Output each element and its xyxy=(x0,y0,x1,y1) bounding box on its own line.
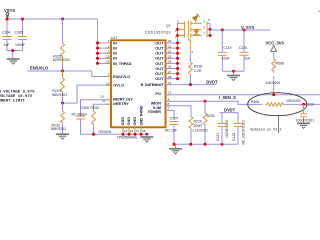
svg-text:10K/0201: 10K/0201 xyxy=(266,81,281,85)
svg-text:Updated on V2.1: Updated on V2.1 xyxy=(250,128,282,133)
svg-text:GND: GND xyxy=(126,117,131,126)
svg-text:10: 10 xyxy=(100,95,104,99)
resistor R233 xyxy=(90,106,111,134)
svg-text:TPS25940A0L: TPS25940A0L xyxy=(117,136,138,140)
IC left pin numbers xyxy=(100,39,110,103)
svg-text:C121: C121 xyxy=(216,133,220,141)
svg-text:18: 18 xyxy=(142,129,146,133)
node VSYS power label xyxy=(4,8,15,19)
resistor R231 1.1K/0201 xyxy=(192,101,215,144)
wire NRETRY pin 11 to R233 xyxy=(94,104,112,111)
svg-text:OUT: OUT xyxy=(155,76,164,81)
ground (analog) xyxy=(169,144,182,154)
ground (IC) xyxy=(140,134,153,142)
svg-text:EN/UVLO: EN/UVLO xyxy=(113,74,130,79)
capacitor C121 100nF/0201 xyxy=(216,113,229,145)
svg-text:IN_THPAD: IN_THPAD xyxy=(113,61,132,66)
svg-text:R230: R230 xyxy=(194,65,202,69)
ground (C119/C120) xyxy=(227,71,240,80)
svg-text:Q7: Q7 xyxy=(166,24,171,28)
svg-text:10K/0201: 10K/0201 xyxy=(286,99,301,103)
wire IC GND bottom rail xyxy=(81,133,147,135)
svg-text:56K/0201: 56K/0201 xyxy=(51,127,66,131)
svg-text:C306: C306 xyxy=(81,106,89,110)
junction dots analog rail xyxy=(173,143,224,146)
svg-text:2.2R: 2.2R xyxy=(194,69,202,73)
resistor R230 2.2R (gate) xyxy=(188,54,202,85)
IC left pin names xyxy=(113,40,133,106)
wire analog gnd rail xyxy=(174,143,238,145)
svg-text:100nF: 100nF xyxy=(15,43,25,47)
svg-text:300R: 300R xyxy=(194,124,203,128)
wire RETRY_DLY pin 10 to C306 xyxy=(81,100,112,116)
junction dot dVdT/R230 xyxy=(189,83,192,86)
junction dots V_SYS rail xyxy=(221,29,224,32)
svg-text:NC 100nF/0201: NC 100nF/0201 xyxy=(242,120,246,145)
svg-text:VOLTAGE 19.97V: VOLTAGE 19.97V xyxy=(0,95,33,99)
resistor R222 620R/0201 xyxy=(53,19,70,71)
comment text left margin xyxy=(0,90,35,103)
annotation leader line xyxy=(278,116,280,133)
svg-text:EN/UVLO: EN/UVLO xyxy=(30,66,49,71)
resistor R229 300R xyxy=(189,117,202,145)
svg-text:1.1K/0201: 1.1K/0201 xyxy=(192,128,208,132)
capacitor C306 NC 680pF xyxy=(72,106,90,134)
svg-text:ITIMER: ITIMER xyxy=(148,109,161,114)
annotation ellipse R400 xyxy=(248,93,307,116)
svg-text:R233: R233 xyxy=(90,106,98,110)
junction dots IN bus xyxy=(96,42,99,65)
wire stub to ground xyxy=(12,51,14,55)
svg-text:NC 680pF: NC 680pF xyxy=(72,112,88,116)
capacitor C119 10uF xyxy=(218,30,232,71)
svg-text:10uF: 10uF xyxy=(222,57,230,61)
wire IC GND pin stubs xyxy=(123,127,141,134)
wire top-left VSYS rail xyxy=(7,18,98,20)
svg-text:C305: C305 xyxy=(15,30,23,34)
junction dot EN/UVLO xyxy=(61,70,64,73)
power VCC_3V3 xyxy=(266,41,285,59)
svg-text:16: 16 xyxy=(130,129,134,133)
svg-text:0R/0201: 0R/0201 xyxy=(99,130,112,134)
svg-text:56K/0201: 56K/0201 xyxy=(52,93,67,97)
junction dot node B xyxy=(61,102,64,105)
svg-text:IN: IN xyxy=(113,56,117,61)
junction dots GND rail xyxy=(92,133,148,136)
wire right edge stub xyxy=(318,10,320,12)
svg-text:R231: R231 xyxy=(207,114,215,118)
svg-text:DVDT: DVDT xyxy=(224,108,236,113)
wire ITIMER xyxy=(166,110,175,118)
svg-text:C304: C304 xyxy=(2,30,10,34)
wire IMON / I_SEN_S xyxy=(166,101,263,104)
pin stubs orange left side xyxy=(106,43,112,104)
svg-text:15: 15 xyxy=(124,129,128,133)
capacitor C120 1uF xyxy=(239,30,251,71)
svg-text:GND: GND xyxy=(120,117,125,126)
svg-text:17: 17 xyxy=(136,129,140,133)
wire EN/UVLO to pin 6 xyxy=(28,71,112,77)
svg-text:NRETRY: NRETRY xyxy=(113,101,129,106)
wire OUT pin stubs xyxy=(166,43,178,79)
capacitor C304 xyxy=(2,19,12,51)
resistor R223 56K/0201 xyxy=(52,71,67,103)
svg-text:R508: R508 xyxy=(276,61,284,65)
capacitor C305 xyxy=(15,19,28,51)
wire node B to OVLO pin xyxy=(63,85,112,103)
junction dot PG/R508 xyxy=(272,93,275,96)
capacitor C223 100nF/0201 xyxy=(296,102,315,122)
junction dots Q7 drain xyxy=(209,28,212,31)
svg-text:B_GATE/dVdT: B_GATE/dVdT xyxy=(141,82,165,87)
svg-text:VCC_3V3: VCC_3V3 xyxy=(266,41,285,46)
IC bottom pin names (rotated) xyxy=(120,105,143,125)
svg-text:DVDT: DVDT xyxy=(206,80,218,85)
resistor R232 56K/0201 xyxy=(51,103,66,133)
svg-text:C119: C119 xyxy=(223,46,231,50)
svg-text:CSD19537Q3: CSD19537Q3 xyxy=(145,31,171,35)
svg-text:GND_THPAD: GND_THPAD xyxy=(138,105,143,125)
wire OUT bus up to Q7 xyxy=(177,23,179,78)
junction dots OUT bus xyxy=(176,28,179,80)
wire IN pin stubs xyxy=(98,43,112,63)
svg-text:GND: GND xyxy=(132,117,137,126)
wire V_SYS rail xyxy=(210,29,270,31)
capacitor C122 NC 100nF/0201 xyxy=(232,113,246,145)
IC bottom pin numbers xyxy=(124,129,146,133)
junction dots VSYS rail xyxy=(6,18,9,21)
svg-text:C223: C223 xyxy=(305,102,313,106)
ground (C304/C305) xyxy=(7,51,20,65)
resistor R508 10K/0201 xyxy=(266,59,284,95)
svg-text:C122: C122 xyxy=(232,133,236,141)
capacitor C307 NC 1nF xyxy=(165,117,179,145)
wire DVDT segment xyxy=(220,112,239,114)
IC right pin names xyxy=(141,40,165,114)
svg-text:C307: C307 xyxy=(170,117,178,121)
svg-text:VSYS: VSYS xyxy=(4,8,15,13)
ground (C223) xyxy=(297,123,310,128)
resistor R400 10K/0201 (inline) xyxy=(251,99,320,106)
wire ILIM xyxy=(166,106,192,117)
svg-text:13: 13 xyxy=(168,91,172,95)
wire Q7 drain bar xyxy=(209,23,211,35)
svg-text:R400: R400 xyxy=(251,100,259,104)
svg-text:I_SEN_S: I_SEN_S xyxy=(219,95,236,100)
junction dot C223 xyxy=(302,103,305,106)
pin stubs orange right side xyxy=(166,43,172,110)
transistor Q7 CSD19537Q3 xyxy=(178,14,211,54)
junction dot caps gnd xyxy=(232,70,235,73)
wire C119/C120 bottom rail xyxy=(222,70,244,72)
wire dVdT (B_GATE) xyxy=(166,84,217,86)
svg-text:C120: C120 xyxy=(239,46,247,50)
ground (R232) xyxy=(56,134,69,139)
svg-text:PG: PG xyxy=(155,91,161,96)
wire VSYS rail down to IN bus xyxy=(97,19,99,64)
op-amp U17 IC body TPS25940 xyxy=(111,40,166,127)
wire caps bottom join xyxy=(7,50,23,52)
IC right pin numbers xyxy=(168,39,172,110)
junction dots caps bottom xyxy=(11,49,14,52)
svg-text:620R/0201: 620R/0201 xyxy=(53,58,70,62)
svg-text:1uF: 1uF xyxy=(4,43,10,47)
svg-text:100nF/0201: 100nF/0201 xyxy=(225,119,229,138)
svg-text:1uF: 1uF xyxy=(244,57,250,61)
svg-text:RRENT LIMIT: RRENT LIMIT xyxy=(0,100,26,104)
wire PG net xyxy=(166,94,320,96)
svg-text:100nF/0201: 100nF/0201 xyxy=(296,119,315,123)
svg-text:NC 1nF: NC 1nF xyxy=(165,128,177,132)
svg-text:OVLO: OVLO xyxy=(113,83,124,88)
svg-text:O VOLTAGE 9.97V: O VOLTAGE 9.97V xyxy=(0,90,35,94)
junction dot IMON/R231 xyxy=(204,100,207,103)
